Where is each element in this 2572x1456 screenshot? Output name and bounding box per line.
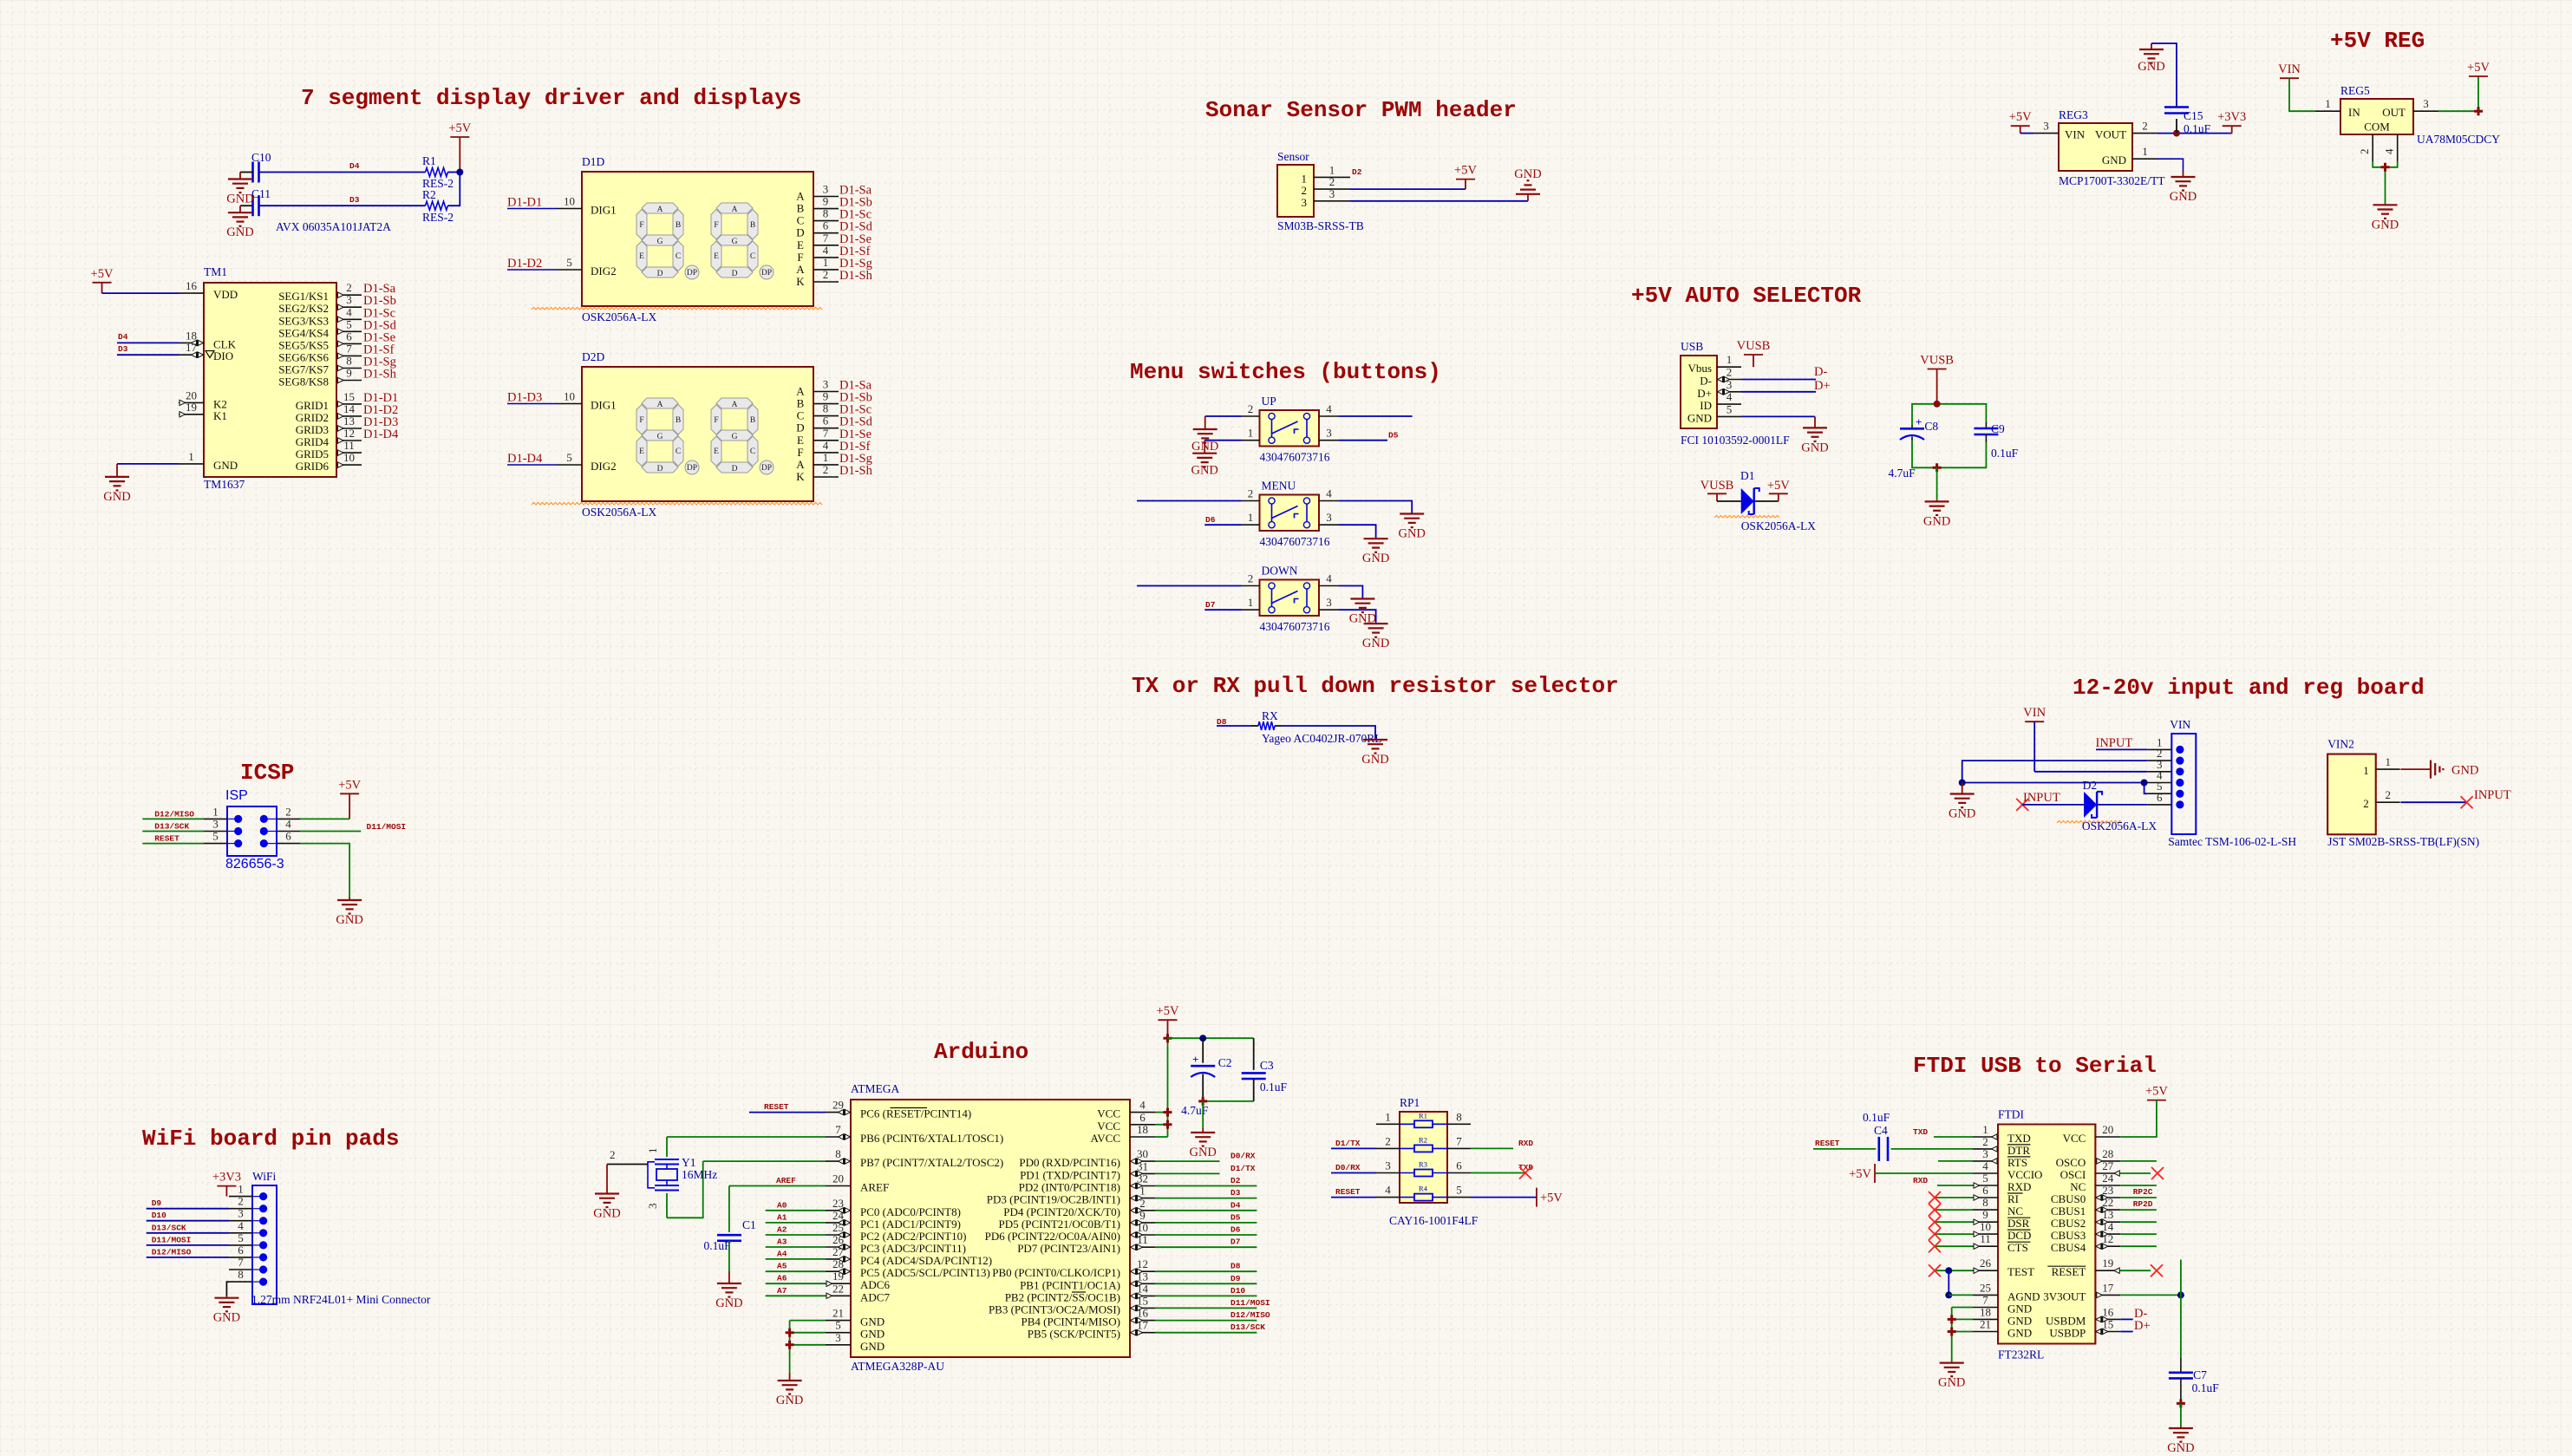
svg-text:Menu switches (buttons): Menu switches (buttons) <box>1130 359 1441 385</box>
svg-text:7 segment display driver and d: 7 segment display driver and displays <box>301 85 801 111</box>
svg-text:OSK2056A-LX: OSK2056A-LX <box>1741 519 1816 532</box>
wire GND pin <box>790 1332 826 1334</box>
svg-text:REG5: REG5 <box>2340 84 2370 97</box>
ground (REG3 pin1) <box>2170 172 2197 204</box>
pin 13 PB1 <box>1020 1270 1155 1291</box>
svg-text:8: 8 <box>823 402 829 415</box>
svg-text:ADC6: ADC6 <box>860 1278 890 1291</box>
pin 8 segment C <box>797 207 839 227</box>
wire ISP pin2 to +5V <box>300 818 349 819</box>
wire RTS <box>1938 1160 1973 1162</box>
power +5V (REG5 out) <box>2467 61 2490 76</box>
pin 1 (WiFi) <box>229 1183 252 1197</box>
pin 3 SEG2/KS2 <box>278 293 362 315</box>
svg-text:PC1 (ADC1/PCINT9): PC1 (ADC1/PCINT9) <box>860 1218 961 1231</box>
svg-text:5: 5 <box>212 830 219 843</box>
wire USBDM D- <box>2120 1318 2132 1320</box>
no-ERC marker (FTDI left) <box>1929 1240 1941 1252</box>
power VIN (REG5) <box>2278 62 2301 78</box>
svg-text:1.27mm NRF24L01+ Mini Connecto: 1.27mm NRF24L01+ Mini Connector <box>251 1293 431 1306</box>
svg-text:1: 1 <box>2385 755 2391 768</box>
pin 14 PB2 <box>1005 1282 1155 1303</box>
wire RX left lead <box>1251 725 1258 727</box>
pin 1 Vbus (USB) <box>1688 353 1741 375</box>
svg-text:C10: C10 <box>251 151 271 164</box>
ground (DOWN pin3) <box>1362 623 1389 650</box>
svg-text:6: 6 <box>1139 1111 1146 1124</box>
svg-text:32: 32 <box>1137 1172 1148 1185</box>
wire loop to ground <box>1936 467 1938 499</box>
svg-text:RP1: RP1 <box>1400 1096 1420 1109</box>
svg-text:1: 1 <box>1248 596 1254 609</box>
svg-text:UA78M05CDCY: UA78M05CDCY <box>2417 133 2500 146</box>
svg-text:17: 17 <box>2102 1281 2114 1294</box>
svg-text:4: 4 <box>346 305 352 318</box>
pin 17 DIO <box>179 341 233 362</box>
pin 6 (VIN header) <box>2147 791 2184 809</box>
wire D8 to RX resistor <box>1217 725 1251 727</box>
ground (ATMEGA) <box>776 1373 803 1407</box>
svg-text:4: 4 <box>1139 1099 1146 1112</box>
junction C2 top <box>1199 1035 1206 1041</box>
svg-text:RESET: RESET <box>1335 1187 1361 1197</box>
wire INPUT to pin1 <box>2096 748 2147 750</box>
junction VUSB top <box>1934 401 1941 408</box>
wire VCC pin4 <box>1155 1112 1168 1113</box>
svg-text:D: D <box>657 270 663 278</box>
svg-text:24: 24 <box>832 1209 845 1222</box>
wire D9 to WiFi <box>147 1208 229 1210</box>
svg-text:D3: D3 <box>118 344 128 354</box>
pin 1 of Sensor <box>1302 163 1351 185</box>
wire no-connect pin <box>1935 1270 1973 1271</box>
svg-text:9: 9 <box>1982 1208 1988 1221</box>
svg-text:27: 27 <box>2102 1159 2114 1172</box>
svg-text:23: 23 <box>832 1197 844 1210</box>
svg-text:OSK2056A-LX: OSK2056A-LX <box>2082 819 2157 832</box>
svg-text:D3: D3 <box>349 195 360 205</box>
svg-text:INPUT: INPUT <box>2096 736 2133 750</box>
svg-text:9: 9 <box>1139 1209 1146 1222</box>
wire MENU pin2 <box>1137 500 1242 502</box>
junction FTDI GND <box>1948 1315 1956 1323</box>
junction C7 gnd <box>2177 1399 2185 1407</box>
svg-text:DIG2: DIG2 <box>591 460 617 473</box>
svg-text:DP: DP <box>761 269 772 277</box>
wire C2 top lead <box>1202 1038 1204 1063</box>
pin 3 (RP1 left) <box>1376 1159 1400 1173</box>
pin 24 PC1 <box>826 1209 961 1231</box>
wire D3 <box>1155 1198 1257 1199</box>
wire no-connect pin <box>1935 1209 1973 1211</box>
pin 4 (UP) <box>1319 402 1339 416</box>
svg-text:DIG1: DIG1 <box>591 204 617 217</box>
svg-text:6: 6 <box>285 830 291 843</box>
pin 4 (ISP right) <box>277 818 300 832</box>
svg-text:TXD: TXD <box>2007 1132 2031 1145</box>
svg-text:2: 2 <box>2363 797 2369 810</box>
svg-text:B: B <box>797 202 805 215</box>
svg-text:AVCC: AVCC <box>1091 1132 1120 1145</box>
svg-text:+: + <box>1916 415 1922 428</box>
svg-text:D11/MOSI: D11/MOSI <box>1231 1298 1270 1308</box>
svg-text:A: A <box>657 206 663 214</box>
pin 12 CBUS4 <box>2051 1232 2120 1254</box>
svg-text:SEG4/KS4: SEG4/KS4 <box>278 326 329 339</box>
wire D5 <box>1155 1222 1257 1224</box>
svg-text:OSK2056A-LX: OSK2056A-LX <box>582 506 656 519</box>
pin 7 segment E <box>797 232 839 251</box>
pin 10 DCD <box>1973 1220 2031 1242</box>
pin 5 DIG2 <box>557 451 617 473</box>
svg-text:R1: R1 <box>422 154 436 167</box>
svg-text:18: 18 <box>1980 1305 1991 1318</box>
pin 13 GRID3 <box>296 415 362 436</box>
pin 10 DIG1 <box>557 195 617 217</box>
junction GND rail left <box>1959 780 1966 787</box>
svg-text:C: C <box>750 447 755 456</box>
wire D8 <box>1155 1270 1257 1272</box>
ground (C15) <box>2138 43 2164 74</box>
svg-text:8: 8 <box>1982 1196 1988 1209</box>
pin 15 PB3 <box>989 1294 1155 1316</box>
pin 4 ID (USB) <box>1700 390 1741 412</box>
svg-text:TX or RX pull down resistor se: TX or RX pull down resistor selector <box>1132 673 1619 699</box>
pin 2 (RP1 left) <box>1376 1134 1400 1148</box>
pin 3 (WiFi) <box>229 1207 252 1221</box>
svg-text:5: 5 <box>566 256 572 269</box>
svg-text:D+: D+ <box>1697 387 1712 400</box>
svg-text:B: B <box>676 416 681 425</box>
svg-text:RESET: RESET <box>154 834 180 844</box>
wire TM1 GND <box>117 463 179 465</box>
resistor R2 <box>426 201 448 210</box>
wire CBUS <box>2120 1245 2157 1247</box>
svg-text:A2: A2 <box>777 1225 787 1235</box>
svg-text:D11/MOSI: D11/MOSI <box>152 1235 192 1244</box>
pin 1 TXD <box>1973 1123 2031 1145</box>
pin 20 VCC <box>2063 1123 2121 1145</box>
pin 21 GND <box>1973 1318 2032 1340</box>
svg-text:GND: GND <box>1398 527 1425 541</box>
svg-text:K: K <box>796 275 805 288</box>
digit glyph 1 <box>642 398 678 408</box>
svg-text:D9: D9 <box>152 1198 162 1208</box>
svg-text:SEG8/KS8: SEG8/KS8 <box>278 375 329 388</box>
wire D4 net C10 to R1 <box>259 172 426 173</box>
svg-text:VCC: VCC <box>1097 1107 1120 1120</box>
svg-text:2: 2 <box>823 268 829 281</box>
svg-text:1: 1 <box>1248 427 1254 440</box>
svg-text:OSK2056A-LX: OSK2056A-LX <box>582 310 656 323</box>
wire AREF <box>729 1185 826 1187</box>
wire D12/MISO to ISP <box>142 818 204 819</box>
pin 8 PB7 <box>826 1147 1003 1169</box>
pin 4 (RP1 left) <box>1376 1184 1400 1198</box>
svg-text:Yageo AC0402JR-070RL: Yageo AC0402JR-070RL <box>1262 732 1382 745</box>
pin 5 GND (USB) <box>1687 402 1741 424</box>
pin 6 segment D <box>796 219 839 239</box>
wire A3 <box>766 1246 826 1248</box>
wire C15 bottom lead <box>2176 119 2177 134</box>
svg-text:2: 2 <box>2385 788 2391 801</box>
svg-text:MCP1700T-3302E/TT: MCP1700T-3302E/TT <box>2059 174 2165 187</box>
wire C2 bottom to gnd <box>1202 1101 1204 1128</box>
svg-text:12: 12 <box>1137 1257 1148 1270</box>
svg-text:13: 13 <box>343 415 355 428</box>
svg-text:E: E <box>639 447 644 456</box>
svg-text:ID: ID <box>1700 399 1712 412</box>
wire RP1 pin5 to +5V <box>1471 1197 1537 1198</box>
pin 26 PC3 <box>826 1233 966 1255</box>
svg-text:R3: R3 <box>1419 1160 1427 1169</box>
pin 3 GND <box>826 1331 885 1353</box>
svg-text:+5V: +5V <box>1454 164 1477 178</box>
pin 4 SEG3/KS3 <box>278 305 362 327</box>
svg-text:D: D <box>796 421 804 434</box>
pin 16 USBDM <box>2046 1305 2120 1327</box>
svg-text:VIN: VIN <box>2065 128 2086 141</box>
svg-text:VCC: VCC <box>1097 1120 1120 1133</box>
svg-text:1: 1 <box>823 451 829 464</box>
svg-text:OSCO: OSCO <box>2056 1156 2086 1169</box>
power +3V3 (WiFi) <box>212 1171 241 1197</box>
connector Sensor (SM03B-SRSS-TB) <box>1277 165 1314 217</box>
svg-text:11: 11 <box>343 439 355 452</box>
svg-text:PB4 (PCINT4/MISO): PB4 (PCINT4/MISO) <box>1022 1316 1121 1329</box>
svg-text:C7: C7 <box>2193 1368 2207 1381</box>
pin 2 PD4 <box>1003 1197 1155 1218</box>
svg-text:D13/SCK: D13/SCK <box>152 1223 186 1232</box>
pin 4 (DOWN) <box>1319 572 1339 586</box>
junction C2 bottom <box>1198 1097 1207 1106</box>
svg-text:CBUS4: CBUS4 <box>2051 1241 2086 1254</box>
no-ERC marker (FTDI left) <box>1929 1264 1941 1276</box>
no-ERC marker INPUT (VIN2) <box>2461 796 2473 808</box>
wire D0/RX <box>1155 1160 1220 1162</box>
svg-text:GRID1: GRID1 <box>296 399 329 412</box>
svg-text:18: 18 <box>186 329 197 342</box>
svg-text:SEG3/KS3: SEG3/KS3 <box>278 314 329 327</box>
capacitor C10 <box>253 162 259 183</box>
svg-text:5: 5 <box>566 451 572 464</box>
svg-text:0.1uF: 0.1uF <box>1991 447 2019 460</box>
svg-text:D1-D4: D1-D4 <box>507 452 543 466</box>
ground (12-20v input) <box>1949 783 1975 821</box>
svg-text:2: 2 <box>1248 572 1254 585</box>
pin 4 (VIN header) <box>2147 769 2184 787</box>
IC FTDI (FT232RL) <box>1998 1125 2095 1344</box>
digit glyph 2 <box>716 398 753 408</box>
svg-text:G: G <box>732 238 738 246</box>
wire branch to pin5 <box>2144 783 2148 794</box>
svg-text:AREF: AREF <box>776 1176 796 1185</box>
svg-text:PB3 (PCINT3/OC2A/MOSI): PB3 (PCINT3/OC2A/MOSI) <box>989 1303 1120 1316</box>
svg-text:6: 6 <box>823 219 829 232</box>
svg-text:C15: C15 <box>2184 109 2203 122</box>
svg-text:PD0 (RXD/PCINT16): PD0 (RXD/PCINT16) <box>1019 1156 1120 1169</box>
svg-text:D12/MISO: D12/MISO <box>152 1247 192 1257</box>
pin 2 of Sensor <box>1302 175 1351 197</box>
svg-text:GND: GND <box>2007 1314 2032 1327</box>
svg-text:GND: GND <box>1361 753 1388 767</box>
svg-text:D-: D- <box>1700 375 1712 388</box>
ground (USB) <box>1801 416 1828 454</box>
wire RX to ground <box>1282 726 1375 738</box>
resistor element R1 in RP1 <box>1400 1111 1447 1127</box>
svg-text:D: D <box>732 270 738 278</box>
svg-text:D1-D1: D1-D1 <box>507 196 542 210</box>
pin 27 PC4 <box>826 1245 992 1267</box>
wire A6 <box>766 1283 826 1284</box>
svg-text:17: 17 <box>186 341 198 354</box>
svg-text:8: 8 <box>346 355 352 368</box>
pin 1 (UP) <box>1242 427 1260 441</box>
svg-text:RESET: RESET <box>2052 1265 2086 1278</box>
svg-text:25: 25 <box>1980 1281 1991 1294</box>
svg-text:13: 13 <box>1137 1270 1148 1283</box>
wire crystal bottom <box>666 1193 668 1218</box>
ground (RX) <box>1361 738 1388 767</box>
svg-text:D10: D10 <box>1231 1286 1245 1296</box>
pin 21 GND <box>826 1307 885 1329</box>
svg-text:6: 6 <box>1982 1184 1988 1197</box>
svg-text:COM: COM <box>2364 121 2390 134</box>
svg-text:DP: DP <box>687 269 697 277</box>
svg-text:1: 1 <box>646 1148 659 1154</box>
svg-text:VIN: VIN <box>2023 706 2046 720</box>
svg-text:D+: D+ <box>2134 1319 2151 1333</box>
svg-text:GND: GND <box>2167 1441 2194 1455</box>
svg-text:C: C <box>676 252 681 261</box>
pin 4 segment F <box>797 244 839 264</box>
svg-text:D1-D3: D1-D3 <box>507 391 542 405</box>
crystal Y1 (16MHz) <box>646 1148 717 1210</box>
wire UP pin3 net D5 <box>1339 440 1387 441</box>
svg-text:PC5 (ADC5/SCL/PCINT13): PC5 (ADC5/SCL/PCINT13) <box>860 1266 990 1279</box>
svg-text:6: 6 <box>823 415 829 428</box>
wire RXD to FTDI <box>1937 1185 1973 1186</box>
wire pin2 to GND rail <box>1962 761 2148 782</box>
wire UP pin1 <box>1204 440 1241 441</box>
ground (Y1 case) <box>593 1165 620 1221</box>
svg-text:DIO: DIO <box>213 349 233 362</box>
pin 1 segment A <box>796 256 839 276</box>
svg-text:1: 1 <box>2363 764 2369 777</box>
pin 19 K1 <box>179 401 227 422</box>
svg-text:A5: A5 <box>777 1262 787 1271</box>
svg-text:GND: GND <box>593 1207 620 1221</box>
svg-text:11: 11 <box>1980 1232 1991 1245</box>
pin 16 PB4 <box>1022 1307 1156 1329</box>
svg-text:2: 2 <box>823 463 829 476</box>
svg-text:D1-Sh: D1-Sh <box>839 464 873 478</box>
ground (UP pin1) <box>1191 441 1217 478</box>
ground (WiFi) <box>213 1296 240 1325</box>
pin 28 PC5 <box>826 1257 990 1279</box>
wire RESET19 <box>2120 1270 2151 1271</box>
diode D2 (schottky OSK2056A-LX) <box>2084 792 2102 818</box>
pin 26 TEST <box>1973 1257 2034 1278</box>
svg-text:OSCI: OSCI <box>2060 1168 2086 1181</box>
svg-text:2: 2 <box>285 805 291 818</box>
wire INPUT to D2 <box>2022 804 2084 806</box>
svg-text:D5: D5 <box>1231 1212 1241 1222</box>
wire VIN down to header pin3 <box>2033 721 2035 772</box>
svg-text:D1-Sh: D1-Sh <box>839 269 873 283</box>
wire D1/TX to RP1 <box>1331 1147 1376 1149</box>
pin 2 D- (USB) <box>1700 366 1741 388</box>
svg-text:10: 10 <box>564 195 575 208</box>
pin 19 RESET <box>2052 1257 2121 1278</box>
wire D4 to CLK <box>117 342 179 343</box>
svg-text:+5V: +5V <box>338 778 361 792</box>
svg-text:430476073716: 430476073716 <box>1260 535 1330 548</box>
svg-text:GRID3: GRID3 <box>296 423 329 436</box>
svg-text:F: F <box>639 416 643 425</box>
svg-text:C2: C2 <box>1218 1056 1232 1069</box>
wire USBDP D+ <box>2120 1331 2132 1333</box>
svg-text:1: 1 <box>1248 511 1254 524</box>
pin 5 (WiFi) <box>229 1231 252 1245</box>
svg-text:D: D <box>732 465 738 473</box>
svg-text:RESET: RESET <box>1815 1139 1840 1148</box>
pin 2 (MENU) <box>1242 487 1260 501</box>
power +5V (TM1 VDD) <box>91 267 114 293</box>
svg-text:RI: RI <box>2007 1192 2019 1205</box>
pin 17 3V3OUT <box>2043 1281 2120 1303</box>
svg-text:D1: D1 <box>1740 469 1755 482</box>
svg-text:+3V3: +3V3 <box>2217 110 2246 124</box>
svg-text:E: E <box>797 238 804 251</box>
svg-text:USBDP: USBDP <box>2049 1327 2086 1340</box>
svg-text:6: 6 <box>238 1244 244 1257</box>
svg-text:+5V: +5V <box>2145 1085 2168 1099</box>
wire TXD to FTDI <box>1934 1136 1973 1138</box>
pin 3 (VIN header) <box>2147 758 2184 776</box>
svg-text:4: 4 <box>285 818 291 831</box>
pin 1 (ISP left) <box>204 805 227 819</box>
7-segment display D2D <box>582 367 813 501</box>
svg-text:CTS: CTS <box>2007 1241 2028 1254</box>
svg-text:UP: UP <box>1262 395 1276 408</box>
svg-text:5: 5 <box>1727 402 1733 415</box>
svg-text:A1: A1 <box>777 1212 787 1222</box>
svg-text:TM1637: TM1637 <box>204 478 245 491</box>
svg-text:CAY16-1001F4LF: CAY16-1001F4LF <box>1389 1214 1479 1227</box>
svg-text:K: K <box>796 470 805 483</box>
svg-text:6: 6 <box>2157 791 2163 804</box>
svg-text:16: 16 <box>1137 1307 1149 1320</box>
svg-text:D12/MISO: D12/MISO <box>1231 1310 1270 1320</box>
svg-text:DOWN: DOWN <box>1262 565 1298 578</box>
svg-text:4: 4 <box>1727 390 1733 403</box>
svg-text:A0: A0 <box>777 1200 787 1210</box>
svg-text:DIG1: DIG1 <box>591 399 617 412</box>
connector USB (FCI 10103592-0001LF) <box>1681 356 1717 428</box>
svg-text:0.1uF: 0.1uF <box>704 1239 732 1252</box>
svg-text:3: 3 <box>1385 1159 1391 1172</box>
power +5V (VCCIO) <box>1849 1164 1875 1183</box>
power +5V (ATMEGA VCC) <box>1157 1004 1179 1038</box>
svg-text:12-20v input and reg board: 12-20v input and reg board <box>2073 675 2425 701</box>
svg-text:6: 6 <box>346 330 352 343</box>
svg-text:DSR: DSR <box>2007 1217 2030 1230</box>
svg-text:GND: GND <box>226 225 253 239</box>
svg-text:D2D: D2D <box>582 350 604 363</box>
svg-text:26: 26 <box>832 1233 845 1246</box>
svg-text:2: 2 <box>346 281 352 294</box>
